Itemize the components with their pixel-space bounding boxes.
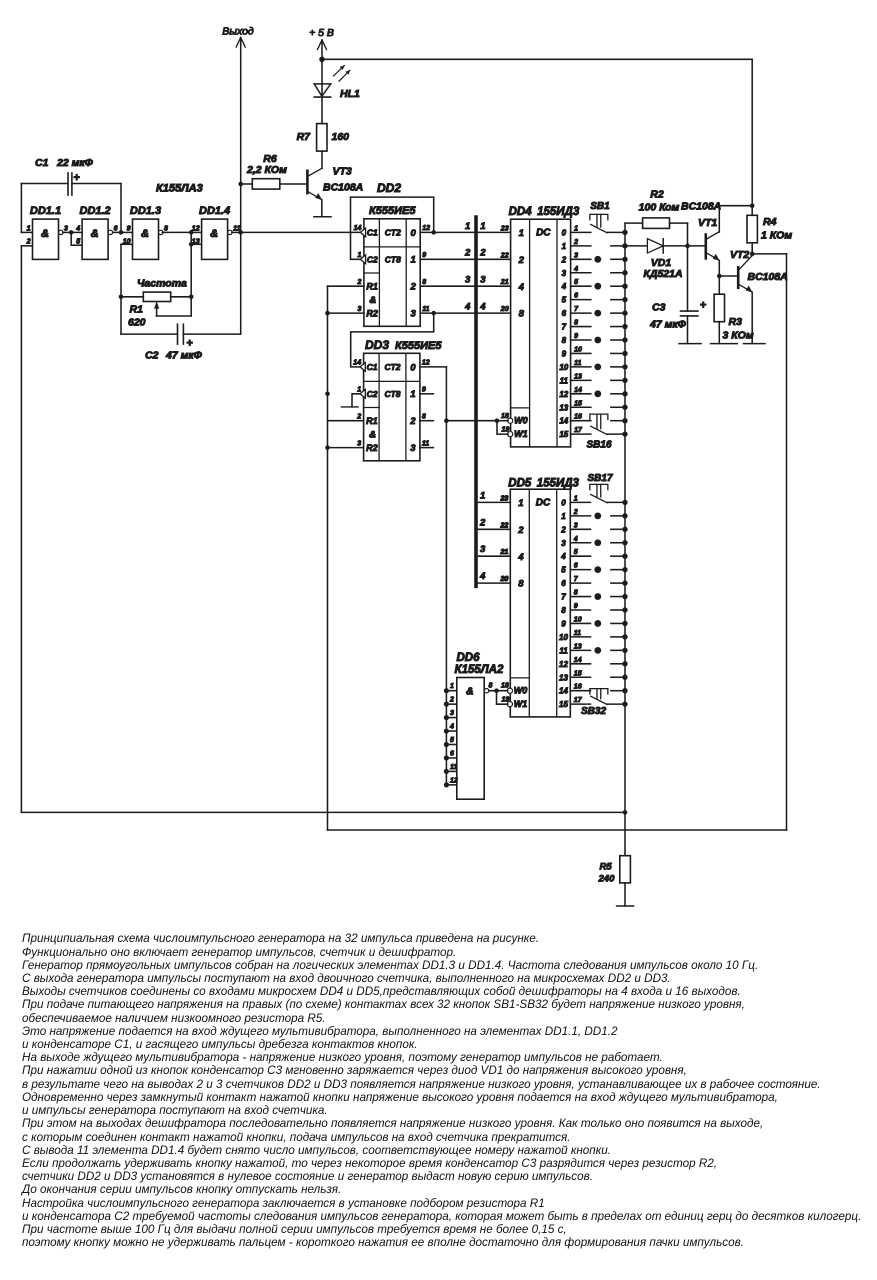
svg-text:13: 13: [559, 403, 568, 412]
svg-text:SB32: SB32: [581, 706, 606, 717]
svg-text:&: &: [210, 228, 218, 240]
svg-text:DD6: DD6: [457, 652, 481, 664]
svg-text:DD2: DD2: [377, 181, 401, 195]
svg-text:2: 2: [410, 282, 417, 293]
svg-text:К555ИЕ5: К555ИЕ5: [395, 340, 442, 352]
svg-text:1: 1: [561, 512, 566, 521]
svg-text:3: 3: [357, 440, 361, 447]
svg-text:12: 12: [450, 777, 458, 784]
svg-text:18: 18: [501, 413, 509, 420]
svg-text:8: 8: [422, 279, 426, 286]
svg-text:1: 1: [518, 498, 523, 509]
svg-text:22: 22: [500, 522, 509, 529]
svg-text:9: 9: [574, 603, 578, 610]
svg-text:W1: W1: [514, 429, 528, 439]
svg-text:7: 7: [574, 306, 579, 313]
svg-text:8: 8: [562, 336, 567, 345]
svg-text:5: 5: [561, 566, 566, 575]
svg-text:1: 1: [27, 225, 31, 232]
svg-text:11: 11: [422, 440, 429, 447]
svg-text:12: 12: [559, 660, 568, 669]
svg-text:R2: R2: [366, 308, 378, 318]
svg-text:4: 4: [479, 302, 486, 313]
svg-text:2: 2: [479, 517, 486, 528]
svg-text:1: 1: [480, 221, 485, 232]
svg-text:W0: W0: [514, 416, 528, 426]
svg-text:HL1: HL1: [340, 88, 360, 100]
svg-text:6: 6: [562, 309, 567, 318]
svg-text:1: 1: [574, 495, 578, 502]
svg-text:DD4: DD4: [509, 206, 533, 218]
svg-text:4: 4: [517, 552, 524, 563]
svg-text:8: 8: [574, 590, 578, 597]
svg-text:DD1.4: DD1.4: [199, 205, 230, 217]
svg-text:2: 2: [573, 509, 578, 516]
svg-text:6: 6: [574, 563, 578, 570]
svg-text:155ИД3: 155ИД3: [537, 478, 580, 490]
svg-text:&: &: [466, 686, 474, 698]
svg-text:SB16: SB16: [586, 440, 611, 451]
svg-text:22: 22: [500, 252, 509, 259]
svg-text:14: 14: [574, 387, 582, 394]
svg-text:3: 3: [574, 252, 578, 259]
svg-text:2: 2: [356, 414, 361, 421]
svg-text:23: 23: [500, 495, 509, 502]
svg-text:VT3: VT3: [333, 166, 352, 178]
svg-text:C3: C3: [652, 302, 666, 314]
svg-text:8: 8: [561, 606, 566, 615]
svg-text:4: 4: [560, 552, 566, 561]
svg-text:10: 10: [574, 346, 582, 353]
svg-text:2: 2: [409, 416, 416, 427]
svg-text:21: 21: [500, 549, 509, 556]
svg-text:4: 4: [464, 302, 471, 313]
svg-text:2: 2: [518, 255, 525, 266]
svg-text:+: +: [187, 338, 193, 350]
svg-text:620: 620: [128, 317, 146, 329]
svg-text:15: 15: [559, 700, 568, 709]
svg-text:4: 4: [75, 225, 80, 232]
svg-text:&: &: [141, 228, 149, 240]
svg-text:3: 3: [561, 539, 566, 548]
svg-text:2,2 КОм: 2,2 КОм: [246, 164, 287, 176]
svg-text:9: 9: [422, 387, 426, 394]
svg-text:8: 8: [422, 414, 426, 421]
svg-text:1: 1: [519, 228, 524, 239]
svg-text:6: 6: [574, 293, 578, 300]
svg-text:+: +: [74, 172, 80, 184]
svg-text:13: 13: [574, 643, 582, 650]
svg-text:11: 11: [422, 306, 429, 313]
svg-text:5: 5: [574, 549, 578, 556]
svg-text:9: 9: [561, 619, 566, 628]
svg-text:9: 9: [562, 349, 567, 358]
svg-text:20: 20: [500, 306, 509, 313]
svg-text:1 КОм: 1 КОм: [761, 230, 792, 242]
svg-text:8: 8: [164, 225, 168, 232]
svg-text:DC: DC: [536, 498, 551, 509]
svg-text:R2: R2: [366, 443, 378, 453]
svg-text:17: 17: [574, 427, 583, 434]
svg-text:10: 10: [559, 363, 568, 372]
svg-text:17: 17: [574, 697, 583, 704]
svg-text:2: 2: [560, 525, 566, 534]
svg-text:8: 8: [489, 683, 493, 690]
svg-text:2: 2: [517, 525, 524, 536]
svg-text:10: 10: [574, 616, 582, 623]
svg-text:3: 3: [465, 275, 471, 286]
svg-text:11: 11: [450, 764, 457, 771]
svg-text:BC108A: BC108A: [681, 201, 721, 213]
svg-text:20: 20: [500, 576, 509, 583]
svg-text:1: 1: [450, 683, 454, 690]
svg-text:3: 3: [450, 710, 454, 717]
svg-text:12: 12: [559, 390, 568, 399]
svg-text:9: 9: [127, 225, 131, 232]
svg-text:11: 11: [559, 646, 568, 655]
svg-text:11: 11: [574, 360, 581, 367]
svg-text:11: 11: [560, 376, 569, 385]
svg-text:К155ЛА3: К155ЛА3: [156, 183, 203, 195]
svg-text:W0: W0: [514, 686, 528, 696]
svg-text:155ИД3: 155ИД3: [537, 206, 580, 218]
svg-text:5: 5: [562, 296, 567, 305]
svg-text:5: 5: [450, 737, 454, 744]
svg-text:CT2: CT2: [384, 362, 400, 372]
svg-text:3: 3: [411, 309, 417, 320]
svg-text:2: 2: [479, 248, 486, 259]
svg-text:3: 3: [64, 225, 68, 232]
svg-text:Частота: Частота: [137, 278, 187, 290]
svg-text:1: 1: [357, 387, 361, 394]
svg-text:VT1: VT1: [698, 217, 717, 229]
svg-text:BC108A: BC108A: [748, 271, 788, 283]
svg-text:12: 12: [422, 225, 430, 232]
svg-text:19: 19: [502, 427, 510, 434]
svg-text:21: 21: [500, 279, 509, 286]
svg-text:3 КОм: 3 КОм: [723, 330, 754, 342]
svg-text:C1: C1: [35, 157, 49, 169]
svg-text:3: 3: [574, 522, 578, 529]
svg-text:8: 8: [574, 320, 578, 327]
svg-text:К155ЛА2: К155ЛА2: [455, 664, 504, 676]
svg-text:R3: R3: [729, 316, 743, 328]
svg-text:9: 9: [422, 252, 426, 259]
svg-text:VT2: VT2: [730, 249, 749, 261]
svg-text:CT2: CT2: [385, 227, 401, 237]
svg-text:8: 8: [518, 579, 524, 590]
svg-text:R2: R2: [650, 189, 664, 201]
svg-text:4: 4: [561, 282, 567, 291]
svg-text:&: &: [91, 228, 99, 240]
svg-text:BC108A: BC108A: [323, 182, 363, 194]
svg-text:C1: C1: [367, 228, 378, 238]
svg-text:R4: R4: [763, 216, 777, 228]
svg-text:&: &: [369, 295, 376, 306]
svg-text:14: 14: [559, 417, 568, 426]
svg-text:3: 3: [410, 443, 416, 454]
svg-text:2: 2: [573, 239, 578, 246]
svg-text:2: 2: [449, 697, 454, 704]
svg-text:DD1.3: DD1.3: [130, 205, 161, 217]
svg-text:14: 14: [559, 687, 568, 696]
svg-text:22 мкФ: 22 мкФ: [56, 157, 94, 169]
svg-text:7: 7: [561, 593, 566, 602]
svg-text:CT8: CT8: [385, 254, 401, 264]
svg-text:14: 14: [353, 360, 361, 367]
svg-text:12: 12: [422, 360, 430, 367]
svg-text:15: 15: [574, 400, 582, 407]
svg-text:C2: C2: [367, 255, 378, 265]
svg-text:15: 15: [574, 670, 582, 677]
svg-text:R1: R1: [366, 282, 378, 292]
svg-text:3: 3: [357, 306, 361, 313]
svg-text:16: 16: [574, 684, 582, 691]
svg-text:8: 8: [519, 309, 525, 320]
svg-text:R7: R7: [297, 131, 312, 143]
svg-text:Выход: Выход: [222, 26, 254, 38]
svg-text:SB17: SB17: [587, 473, 612, 484]
svg-text:&: &: [41, 228, 49, 240]
svg-text:К555ИЕ5: К555ИЕ5: [369, 205, 416, 217]
svg-text:4: 4: [573, 536, 578, 543]
svg-text:14: 14: [354, 225, 362, 232]
svg-text:0: 0: [561, 498, 566, 507]
svg-text:R1: R1: [130, 304, 144, 316]
svg-text:3: 3: [562, 269, 567, 278]
svg-text:47 мкФ: 47 мкФ: [165, 350, 203, 362]
svg-text:DD3: DD3: [365, 338, 389, 352]
svg-text:+: +: [700, 300, 706, 312]
svg-text:1: 1: [562, 242, 567, 251]
svg-text:1: 1: [357, 252, 361, 259]
svg-text:2: 2: [26, 239, 31, 246]
svg-text:7: 7: [562, 323, 567, 332]
svg-text:3: 3: [480, 544, 486, 555]
svg-text:0: 0: [411, 228, 417, 239]
svg-text:6: 6: [561, 579, 566, 588]
svg-text:6: 6: [114, 225, 118, 232]
svg-text:2: 2: [561, 255, 567, 264]
svg-text:DC: DC: [536, 228, 551, 239]
svg-text:13: 13: [574, 373, 582, 380]
svg-text:4: 4: [449, 724, 454, 731]
svg-text:14: 14: [574, 657, 582, 664]
svg-text:R1: R1: [366, 416, 378, 426]
svg-text:240: 240: [598, 874, 616, 885]
svg-text:15: 15: [559, 430, 568, 439]
svg-text:2: 2: [464, 248, 471, 259]
svg-text:9: 9: [574, 333, 578, 340]
svg-text:C2: C2: [367, 389, 378, 399]
svg-text:160: 160: [332, 131, 350, 143]
svg-text:DD5: DD5: [508, 478, 532, 490]
svg-text:13: 13: [559, 673, 568, 682]
svg-text:SB1: SB1: [590, 201, 610, 212]
svg-text:16: 16: [574, 414, 582, 421]
svg-text:0: 0: [562, 228, 567, 237]
svg-text:DD1.1: DD1.1: [30, 205, 61, 217]
svg-text:11: 11: [574, 630, 581, 637]
svg-text:10: 10: [559, 633, 568, 642]
svg-text:1: 1: [480, 490, 485, 501]
svg-text:18: 18: [501, 683, 509, 690]
svg-text:1: 1: [410, 389, 415, 400]
svg-text:C2: C2: [145, 350, 159, 362]
svg-text:1: 1: [411, 255, 416, 266]
svg-text:6: 6: [450, 750, 454, 757]
svg-text:4: 4: [573, 266, 578, 273]
svg-text:4: 4: [479, 571, 486, 582]
svg-text:&: &: [369, 430, 376, 441]
svg-text:1: 1: [574, 225, 578, 232]
svg-text:19: 19: [502, 697, 510, 704]
svg-text:5: 5: [574, 279, 578, 286]
svg-text:W1: W1: [514, 699, 528, 709]
svg-text:2: 2: [356, 279, 361, 286]
svg-text:1: 1: [465, 221, 470, 232]
svg-text:7: 7: [574, 576, 579, 583]
svg-text:0: 0: [410, 362, 416, 373]
svg-text:23: 23: [500, 225, 509, 232]
svg-text:100 Ком: 100 Ком: [639, 202, 680, 214]
svg-text:3: 3: [480, 275, 486, 286]
svg-text:CT8: CT8: [384, 389, 400, 399]
svg-text:4: 4: [518, 282, 525, 293]
svg-text:КД521А: КД521А: [643, 268, 682, 280]
svg-text:47 мкФ: 47 мкФ: [649, 319, 687, 331]
svg-text:+ 5 В: + 5 В: [309, 27, 334, 39]
svg-text:C1: C1: [367, 362, 378, 372]
svg-text:R5: R5: [600, 862, 613, 873]
svg-text:DD1.2: DD1.2: [80, 205, 111, 217]
